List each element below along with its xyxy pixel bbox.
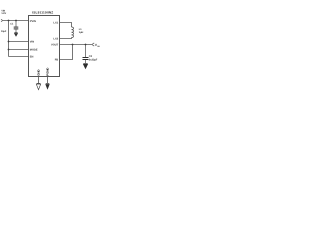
node junction C1 tap bbox=[15, 20, 17, 22]
svg-text:FB: FB bbox=[55, 59, 59, 62]
ground under C1 bbox=[14, 33, 18, 37]
wire rail to VIN bbox=[9, 41, 29, 43]
svg-text:1.8V: 1.8V bbox=[1, 12, 6, 15]
node junction FB drop bbox=[72, 44, 74, 46]
node junction C2 tap bbox=[85, 44, 87, 46]
wire VOUT output bbox=[60, 44, 92, 46]
wire inductor to LX2 bbox=[60, 37, 72, 40]
inductor L1 bbox=[72, 27, 74, 38]
svg-text:VIN: VIN bbox=[30, 41, 34, 44]
wire LX1 to inductor bbox=[60, 23, 72, 28]
capacitor C1 bbox=[14, 21, 19, 33]
node VIN input terminal arrow bbox=[1, 19, 3, 21]
wire GND pin stub bbox=[38, 77, 40, 84]
ground GND (open arrow) bbox=[36, 83, 40, 89]
svg-text:VIN: VIN bbox=[1, 9, 5, 12]
wire input to PVIN bbox=[3, 20, 29, 22]
wire rail to EN bbox=[9, 56, 29, 58]
wire PGND pin stub bbox=[47, 77, 49, 84]
node VOUT output terminal arrow bbox=[92, 43, 94, 46]
svg-text:MODE: MODE bbox=[30, 49, 38, 52]
op-amp U1 ISL91110IINZ IC body bbox=[29, 16, 60, 77]
capacitor C2 bbox=[83, 45, 89, 64]
node junction VIN branch bbox=[8, 41, 10, 43]
svg-text:VOUT: VOUT bbox=[51, 44, 59, 47]
svg-text:PGND: PGND bbox=[46, 68, 50, 76]
node junction rail top bbox=[8, 20, 10, 22]
wire VOUT to FB bbox=[60, 45, 73, 60]
svg-text:LX2: LX2 bbox=[53, 38, 58, 41]
node junction MODE branch bbox=[8, 49, 10, 51]
svg-text:LX1: LX1 bbox=[53, 22, 58, 25]
svg-text:PVIN: PVIN bbox=[30, 20, 36, 23]
svg-text:ISL91110IINZ: ISL91110IINZ bbox=[32, 10, 53, 14]
wire input rail vertical bbox=[8, 21, 10, 57]
svg-text:1µH: 1µH bbox=[79, 31, 84, 34]
svg-text:2x22µF: 2x22µF bbox=[89, 58, 98, 61]
svg-text:OUT: OUT bbox=[97, 45, 100, 48]
ground PGND (filled arrow) bbox=[45, 83, 49, 89]
svg-text:EN: EN bbox=[30, 56, 34, 59]
svg-text:10µF: 10µF bbox=[1, 30, 7, 33]
svg-text:GND: GND bbox=[37, 69, 41, 75]
wire rail to MODE bbox=[9, 49, 29, 51]
ground under C2 bbox=[83, 63, 88, 69]
